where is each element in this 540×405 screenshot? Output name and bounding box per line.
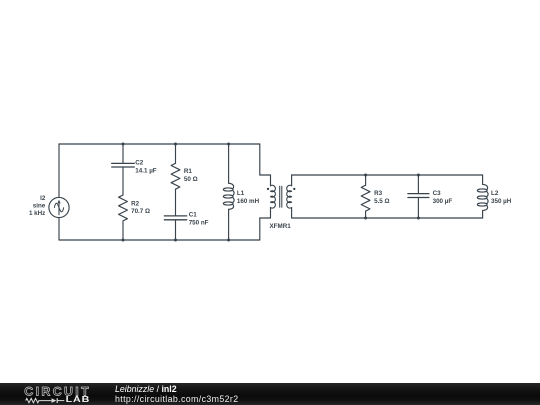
inductor L2 (477, 184, 488, 210)
svg-text:350 µH: 350 µH (491, 198, 512, 205)
wire C3 bottom lead (417, 198, 419, 219)
wire bottom rail left circuit (59, 239, 260, 241)
wire secondary coil top lead (291, 175, 293, 186)
wire bottom rail right circuit (292, 217, 483, 219)
wire L2 top lead (482, 175, 484, 184)
wire C2 top lead (122, 144, 124, 163)
wire C1 bottom lead (175, 220, 177, 240)
capacitor C2 (112, 162, 135, 164)
wire primary top jog (260, 174, 271, 176)
svg-text:R3: R3 (374, 190, 383, 197)
logo diode (52, 398, 57, 403)
svg-text:C2: C2 (135, 159, 144, 166)
wire primary coil top lead (270, 175, 272, 186)
svg-text:300 µF: 300 µF (433, 198, 453, 205)
transformer XFMR1 primary coil (271, 185, 276, 208)
svg-text:C1: C1 (189, 212, 198, 219)
svg-text:70.7 Ω: 70.7 Ω (131, 208, 150, 215)
svg-text:I2: I2 (40, 195, 46, 202)
wire C2 to R2 (122, 167, 124, 195)
node dot bottom C1 column (174, 239, 177, 242)
node dot top L1 column (227, 143, 230, 146)
transformer XFMR1 core (279, 186, 281, 207)
wire primary coil bottom lead (270, 208, 272, 218)
svg-text:C3: C3 (433, 190, 442, 197)
wire source top lead (58, 144, 60, 197)
wire R2 bottom lead (122, 221, 124, 240)
wire R3 bottom lead (365, 211, 367, 218)
wire primary branch down (259, 144, 261, 175)
current source I2 sine squiggle (54, 203, 63, 212)
wire top rail right circuit (292, 174, 483, 176)
svg-text:5.5 Ω: 5.5 Ω (374, 198, 389, 205)
svg-text:R2: R2 (131, 200, 140, 207)
inductor L1 (223, 183, 234, 209)
current source I2 circle (49, 197, 69, 217)
CircuitLab logo (0, 383, 110, 405)
node dot top R1 column (174, 143, 177, 146)
svg-text:R1: R1 (184, 168, 193, 175)
wire L1 bottom lead (228, 209, 230, 240)
wire R1 top lead (175, 144, 177, 163)
CIRCUIT outlined word (24, 385, 91, 399)
LAB word (66, 395, 91, 405)
wire R1 to C1 (175, 189, 177, 216)
logo wire squiggle resistor (26, 398, 52, 402)
resistor R1 (171, 163, 180, 189)
transformer XFMR1 secondary phase dot (293, 188, 295, 190)
svg-text:160 mH: 160 mH (237, 198, 260, 205)
node dot C3 top (417, 174, 420, 177)
footer bar (0, 383, 540, 405)
wire L1 top lead (228, 144, 230, 183)
wire secondary coil bottom lead (291, 208, 293, 218)
current source I2 arrow (58, 203, 60, 215)
footer title text (115, 385, 177, 395)
wire source bottom lead (58, 218, 60, 240)
wire L2 bottom lead (482, 210, 484, 218)
wire C3 top lead (417, 175, 419, 194)
svg-text:750 nF: 750 nF (189, 220, 209, 227)
svg-text:XFMR1: XFMR1 (270, 223, 292, 230)
svg-text:L1: L1 (237, 190, 245, 197)
svg-text:LAB: LAB (66, 395, 91, 405)
capacitor C3 (408, 193, 429, 195)
transformer XFMR1 primary phase dot (267, 188, 269, 190)
resistor R3 (361, 185, 370, 211)
node dot R3 bottom (364, 217, 367, 220)
footer url text (115, 395, 238, 405)
svg-text:1 kHz: 1 kHz (29, 210, 45, 217)
svg-text:14.1 µF: 14.1 µF (135, 167, 157, 174)
node dot bottom R2 column (122, 239, 125, 242)
node dot top C2 column (122, 143, 125, 146)
svg-text:50 Ω: 50 Ω (184, 176, 198, 183)
wire R3 top lead (365, 175, 367, 185)
capacitor C1 (164, 215, 186, 217)
node dot R3 top (364, 174, 367, 177)
svg-text:L2: L2 (491, 190, 499, 197)
resistor R2 (119, 195, 128, 221)
node dot C3 bottom (417, 217, 420, 220)
wire top rail left circuit (59, 143, 260, 145)
transformer XFMR1 secondary coil (287, 185, 292, 208)
wire primary bottom jog (260, 217, 271, 219)
node dot bottom L1 column (227, 239, 230, 242)
wire primary branch to bottom rail (259, 218, 261, 240)
svg-text:sine: sine (33, 202, 46, 209)
